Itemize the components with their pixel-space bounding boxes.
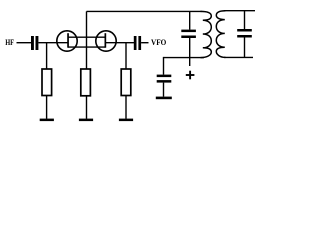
ground (R2) — [79, 119, 93, 122]
wire HF lead — [17, 42, 32, 44]
ground (R1) — [40, 119, 54, 122]
transistor Q1 — [57, 31, 77, 51]
wire drop to R3 — [125, 43, 127, 69]
wire C2 to VFO label — [141, 42, 148, 44]
wire drop to R1 — [46, 43, 48, 69]
wire secondary top rail / output — [224, 10, 255, 12]
resistor R3 — [121, 69, 131, 96]
capacitor C2 (VFO coupling) — [134, 36, 141, 50]
wire secondary bottom rail / output — [224, 56, 253, 58]
wire Q2 base out to VFO coupling — [105, 42, 134, 44]
transformer T1 secondary winding — [216, 11, 225, 58]
capacitor C4 (electrolytic bypass) — [157, 75, 172, 83]
wire corner drop to C4 — [163, 57, 165, 75]
wire R2 to ground — [86, 96, 88, 119]
wire C1 to Q1 base — [38, 42, 68, 44]
resistor R2 — [81, 69, 91, 96]
wire top supply rail — [87, 10, 202, 12]
capacitor C3 (primary tuning) — [181, 30, 196, 38]
svg-text:VFO: VFO — [151, 38, 166, 47]
capacitor C1 (HF coupling) — [31, 36, 38, 50]
wire R3 to ground — [125, 96, 127, 119]
wire supply riser between Q1 and Q2 down to R2 — [86, 11, 88, 69]
wire lower link Q1-Q2 — [68, 46, 105, 48]
wire C5 top lead — [244, 11, 246, 29]
resistor R1 — [42, 69, 52, 96]
wire R1 to ground — [46, 96, 48, 119]
wire C3 bottom lead through rail to supply stub — [189, 38, 191, 66]
svg-text:HF: HF — [5, 39, 14, 48]
wire C5 bottom lead — [244, 38, 246, 58]
wire C4 to ground — [163, 83, 165, 97]
capacitor C5 (secondary tuning) — [237, 29, 252, 38]
transistor Q2 — [96, 31, 116, 51]
wire upper link Q1-Q2 — [68, 36, 105, 38]
wire bottom rail (primary side) — [164, 57, 205, 59]
wire C3 top lead — [189, 11, 191, 29]
transformer T1 primary winding — [201, 11, 212, 57]
node + supply mark — [186, 71, 195, 80]
ground (C4) — [156, 97, 172, 100]
ground (R3) — [119, 119, 133, 122]
